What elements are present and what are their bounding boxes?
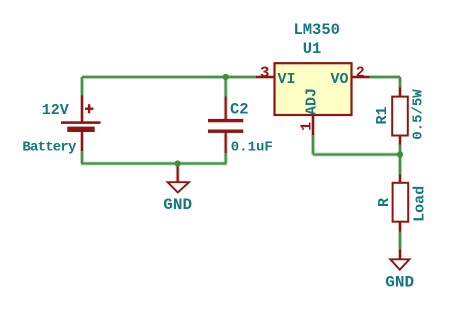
svg-text:3: 3 [260, 64, 270, 82]
svg-text:Load: Load [411, 186, 428, 222]
svg-text:U1: U1 [303, 40, 322, 58]
svg-text:1: 1 [299, 122, 316, 131]
svg-text:2: 2 [356, 64, 365, 81]
svg-text:R1: R1 [374, 106, 391, 124]
svg-text:LM350: LM350 [293, 21, 340, 39]
svg-text:0.1uF: 0.1uF [231, 139, 273, 155]
svg-text:VI: VI [278, 71, 296, 88]
svg-text:C2: C2 [230, 100, 249, 118]
svg-text:GND: GND [385, 273, 414, 291]
svg-text:VO: VO [330, 71, 348, 88]
svg-text:0.5/5W: 0.5/5W [411, 89, 427, 140]
svg-text:ADJ: ADJ [303, 88, 320, 115]
svg-text:12V: 12V [42, 102, 69, 119]
svg-text:GND: GND [163, 196, 192, 214]
svg-text:R: R [376, 198, 393, 207]
svg-text:Battery: Battery [22, 140, 77, 156]
